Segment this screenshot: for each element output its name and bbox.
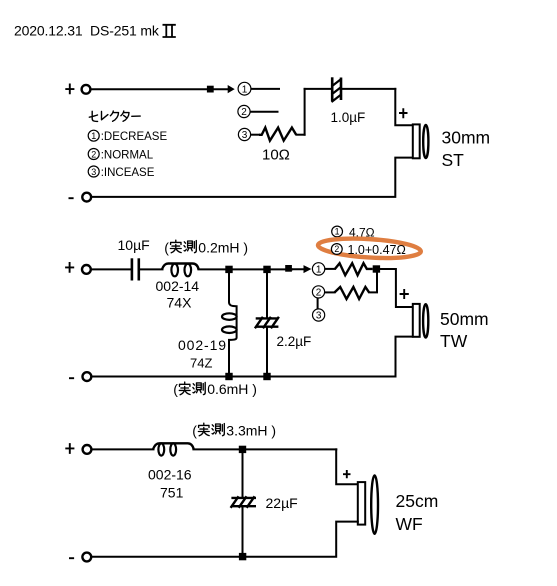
wire from speaker TW bottom: [92, 337, 413, 377]
svg-text:ST: ST: [442, 150, 465, 170]
minus terminal label (bottom): [69, 557, 74, 559]
resistor R1 10ohm: [259, 128, 296, 141]
junction: [239, 446, 246, 453]
svg-text:74Z: 74Z: [190, 356, 212, 371]
svg-text:3.3mH ): 3.3mH ): [226, 422, 276, 438]
svg-text:0.2mH ): 0.2mH ): [198, 239, 248, 255]
wire: [92, 448, 153, 450]
wire node2: [251, 111, 278, 113]
svg-text:1.0+0.47Ω: 1.0+0.47Ω: [348, 243, 406, 257]
wire node3: [251, 134, 259, 136]
label (measured 3.3mH): [192, 422, 276, 438]
svg-text:1.0µF: 1.0µF: [331, 110, 366, 125]
svg-text:1: 1: [316, 265, 322, 276]
junction: [263, 266, 270, 273]
svg-text:2: 2: [334, 244, 339, 254]
junction: [225, 266, 232, 273]
svg-text:3: 3: [242, 130, 248, 141]
wire: [193, 448, 336, 450]
minus terminal label (mid): [69, 377, 74, 379]
svg-text:25cm: 25cm: [396, 491, 439, 511]
plus terminal label (mid): [65, 262, 74, 273]
stub wire node2-node3: [317, 299, 319, 309]
svg-text:2020.12.31 DS-251 mk: 2020.12.31 DS-251 mk: [14, 23, 160, 39]
svg-text::INCEASE: :INCEASE: [101, 167, 155, 179]
svg-text:10µF: 10µF: [118, 237, 150, 253]
label R 4.7ohm with circled 1: [332, 226, 375, 240]
resistor R3 1.0+0.47ohm: [325, 273, 377, 299]
title label 2020.12.31 DS-251 mkII: [14, 23, 176, 39]
svg-text:WF: WF: [396, 514, 423, 534]
terminal circle - (bottom): [82, 553, 91, 562]
label (measured 0.2mH): [164, 239, 248, 255]
inductor L3 002-16: [153, 443, 194, 455]
junction bottom rail: [239, 553, 246, 560]
capacitor C3 2.2uF (shunt): [255, 273, 279, 373]
inductor L1 002-14: [162, 264, 199, 277]
plus terminal label (bottom): [65, 443, 74, 454]
svg-text:002-16: 002-16: [148, 467, 192, 483]
capacitor C4 22uF (shunt): [231, 453, 256, 553]
svg-text:0.6mH ): 0.6mH ): [207, 381, 257, 397]
svg-text:10Ω: 10Ω: [262, 147, 290, 164]
svg-text:751: 751: [160, 485, 184, 501]
svg-text:2.2µF: 2.2µF: [277, 334, 312, 349]
wire: [91, 88, 206, 90]
wire vertical: [304, 89, 306, 135]
node 2 (mid selector): [312, 286, 324, 299]
capacitor C1 1.0uF: [332, 77, 342, 102]
wire: [198, 268, 292, 270]
svg-text:(: (: [164, 239, 169, 255]
wire down to speaker WF: [336, 449, 358, 484]
resistor R2 4.7ohm: [325, 263, 372, 275]
wire: [140, 268, 163, 270]
svg-text:74X: 74X: [167, 295, 193, 311]
svg-text:1: 1: [335, 227, 340, 237]
svg-text:30mm: 30mm: [442, 128, 491, 148]
node 1 (top selector): [238, 82, 251, 95]
wire junction to speaker TW: [380, 269, 412, 307]
svg-text:3: 3: [91, 167, 96, 177]
node 2 (top selector): [238, 105, 250, 118]
svg-text::DECREASE: :DECREASE: [101, 131, 168, 143]
svg-text:3: 3: [316, 311, 322, 322]
plus label at speaker ST: [399, 108, 408, 118]
svg-text:1: 1: [242, 84, 248, 95]
terminal circle + (bottom): [83, 445, 92, 454]
wire: [92, 268, 131, 270]
wire down to speaker: [395, 89, 412, 125]
svg-text:(: (: [192, 422, 197, 438]
svg-text:22µF: 22µF: [266, 495, 298, 511]
junction bottom rail: [225, 373, 232, 380]
node 3 (mid selector): [313, 309, 325, 322]
speaker SP2 50mm TW: [413, 304, 429, 338]
svg-text:2: 2: [241, 107, 247, 118]
selector legend katakana "serekutaa": [89, 111, 140, 121]
svg-text:TW: TW: [440, 331, 468, 351]
svg-text:1: 1: [91, 131, 96, 141]
wire to cap: [305, 88, 332, 90]
svg-text:002-14: 002-14: [156, 278, 200, 294]
terminal circle - (mid): [83, 372, 92, 381]
label R 1.0+0.47ohm with circled 2: [331, 243, 405, 257]
svg-text:002-19: 002-19: [178, 337, 227, 353]
plus terminal label (top): [65, 84, 74, 95]
selector legend lines: [88, 130, 167, 179]
speaker SP1 30mm ST: [413, 124, 429, 158]
wire: [297, 134, 305, 136]
arrow to selector input (mid): [285, 265, 311, 273]
svg-text:50mm: 50mm: [440, 309, 489, 329]
minus terminal label (top): [69, 197, 74, 199]
node 1 (mid selector): [312, 263, 324, 276]
node 3 (top selector): [238, 128, 250, 141]
wire from speaker WF bottom: [92, 522, 358, 557]
speaker SP3 25cm WF: [358, 475, 378, 533]
terminal circle - (top): [82, 193, 91, 202]
orange highlight ellipse: [317, 236, 421, 261]
svg-text:2: 2: [316, 288, 322, 299]
arrow to selector input: [207, 85, 235, 93]
plus label at speaker WF: [343, 470, 351, 478]
svg-text:(: (: [173, 381, 178, 397]
label (measured 0.6mH): [173, 381, 257, 397]
wire from speaker bottom: [92, 158, 413, 197]
svg-text:2: 2: [91, 149, 96, 159]
junction at resistor outputs: [373, 265, 380, 272]
inductor L2 002-19 (shunt): [222, 273, 237, 373]
terminal circle + (top): [82, 85, 91, 94]
svg-text::NORMAL: :NORMAL: [101, 149, 154, 161]
junction bottom rail: [263, 373, 270, 380]
wire node1: [252, 88, 279, 90]
plus label at speaker TW: [400, 289, 409, 299]
capacitor C2 10uF: [132, 258, 139, 280]
wire: [341, 88, 395, 90]
terminal circle + (mid): [82, 265, 91, 274]
